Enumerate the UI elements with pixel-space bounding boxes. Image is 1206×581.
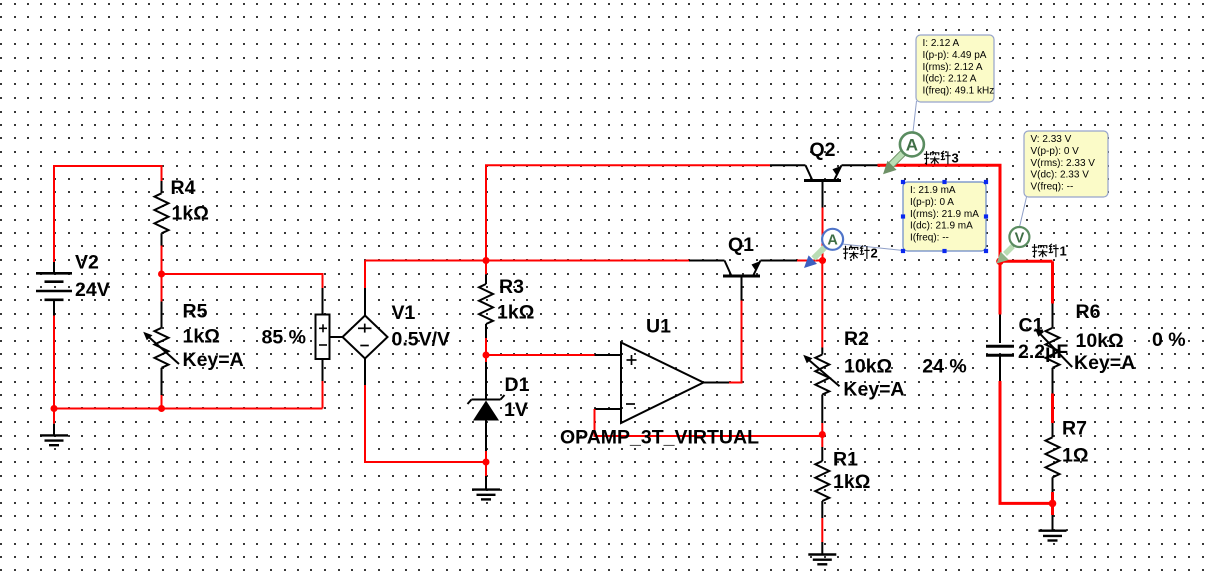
svg-text:2.2µF: 2.2µF	[1018, 341, 1068, 363]
svg-text:I(p-p): 4.49 pA: I(p-p): 4.49 pA	[923, 50, 987, 61]
svg-text:V(freq): --: V(freq): --	[1031, 182, 1074, 193]
svg-text:10kΩ: 10kΩ	[844, 355, 892, 377]
svg-text:V(rms): 2.33 V: V(rms): 2.33 V	[1031, 158, 1096, 169]
svg-text:V: V	[1015, 230, 1025, 246]
svg-text:U1: U1	[646, 316, 671, 338]
svg-text:I: 21.9 mA: I: 21.9 mA	[910, 185, 956, 196]
svg-text:24V: 24V	[75, 279, 110, 301]
svg-text:0.5V/V: 0.5V/V	[392, 329, 451, 351]
svg-text:I(p-p): 0 A: I(p-p): 0 A	[910, 197, 954, 208]
svg-text:R4: R4	[171, 177, 196, 199]
svg-text:Q1: Q1	[728, 234, 754, 256]
svg-text:I(dc): 2.12 A: I(dc): 2.12 A	[923, 74, 977, 85]
svg-text:3: 3	[952, 151, 959, 166]
svg-text:V1: V1	[392, 302, 416, 324]
svg-text:24 %: 24 %	[922, 355, 966, 377]
svg-text:C1: C1	[1019, 315, 1044, 337]
svg-text:V(p-p): 0 V: V(p-p): 0 V	[1031, 146, 1080, 157]
svg-text:OPAMP_3T_VIRTUAL: OPAMP_3T_VIRTUAL	[560, 427, 759, 449]
svg-text:Q2: Q2	[810, 139, 836, 161]
svg-text:V2: V2	[75, 252, 99, 274]
svg-text:I(rms): 2.12 A: I(rms): 2.12 A	[923, 62, 983, 73]
svg-text:I(rms): 21.9 mA: I(rms): 21.9 mA	[910, 209, 979, 220]
svg-text:1kΩ: 1kΩ	[172, 203, 209, 225]
svg-text:R2: R2	[844, 328, 869, 350]
svg-text:1: 1	[1060, 244, 1067, 259]
svg-text:0 %: 0 %	[1152, 329, 1186, 351]
svg-text:V(dc): 2.33 V: V(dc): 2.33 V	[1031, 170, 1090, 181]
svg-text:Key=A: Key=A	[183, 349, 244, 371]
svg-text:I(dc): 21.9 mA: I(dc): 21.9 mA	[910, 221, 973, 232]
svg-text:I: 2.12 A: I: 2.12 A	[923, 38, 960, 49]
svg-text:1V: 1V	[504, 399, 528, 421]
svg-text:R3: R3	[499, 276, 524, 298]
svg-text:2: 2	[871, 245, 878, 260]
svg-text:A: A	[906, 136, 918, 155]
svg-text:Key=A: Key=A	[843, 379, 904, 401]
svg-text:R7: R7	[1062, 418, 1087, 440]
svg-text:R6: R6	[1076, 301, 1101, 323]
svg-text:A: A	[827, 233, 838, 249]
svg-text:D1: D1	[505, 374, 530, 396]
svg-text:1kΩ: 1kΩ	[183, 326, 220, 348]
svg-text:85 %: 85 %	[262, 327, 306, 349]
svg-text:1Ω: 1Ω	[1062, 445, 1088, 467]
svg-text:I(freq): 49.1 kHz: I(freq): 49.1 kHz	[923, 86, 995, 97]
svg-text:1kΩ: 1kΩ	[833, 471, 870, 493]
svg-text:R5: R5	[183, 301, 208, 323]
svg-text:V: 2.33 V: V: 2.33 V	[1031, 134, 1072, 145]
svg-text:1kΩ: 1kΩ	[497, 302, 534, 324]
svg-text:R1: R1	[833, 449, 858, 471]
svg-text:I(freq): --: I(freq): --	[910, 233, 949, 244]
svg-text:Key=A: Key=A	[1074, 352, 1135, 374]
svg-text:10kΩ: 10kΩ	[1076, 330, 1124, 352]
